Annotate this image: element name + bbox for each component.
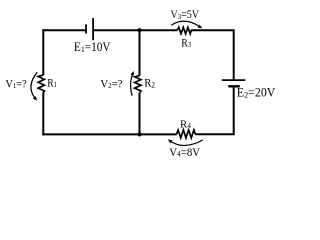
wire: bottom side, R4 to node B — [140, 133, 177, 135]
label V2=? — [100, 78, 122, 90]
label V3=5V — [171, 10, 200, 22]
label R4 — [180, 118, 191, 130]
label V1=? — [6, 78, 27, 91]
wire: bottom side, node B to bottom-left corner — [42, 133, 139, 135]
wire: top side, node A to R3 — [140, 29, 178, 31]
svg-text:E1=10V: E1=10V — [74, 41, 111, 54]
curved arrow for V1 (points down) — [31, 72, 37, 101]
battery E1 negative plate (short bar) — [85, 24, 87, 33]
node B junction dot (bottom of R2 branch) — [137, 132, 141, 136]
resistor R2 — [135, 75, 141, 92]
svg-text:V3=5V: V3=5V — [171, 10, 200, 22]
resistor R4 — [177, 130, 196, 138]
svg-text:R2: R2 — [144, 77, 155, 90]
svg-text:V4=8V: V4=8V — [169, 146, 201, 158]
label R3 — [181, 37, 191, 50]
label R2 — [144, 77, 155, 90]
battery E1 positive plate (long bar) — [92, 18, 94, 40]
node A junction dot (top of R2 branch) — [137, 28, 141, 32]
svg-text:R3: R3 — [181, 37, 191, 50]
wire: left side below R1 — [42, 92, 44, 135]
curved arrow for V3 (points right) — [171, 21, 202, 28]
label R1 — [47, 76, 57, 89]
svg-text:R1: R1 — [47, 76, 57, 89]
resistor R1 — [38, 75, 44, 93]
svg-text:V1=?: V1=? — [6, 78, 27, 91]
wire: top side, E1 to node A — [94, 29, 140, 31]
label E2=20V — [237, 85, 276, 99]
curved arrow for V4 (points left) — [168, 139, 203, 145]
battery E2 positive plate (long bar) — [222, 79, 246, 81]
label V4=8V — [169, 146, 201, 158]
wire: E2 to bottom-right corner to R4 — [195, 87, 233, 134]
svg-text:R4: R4 — [180, 118, 191, 130]
resistor R3 — [177, 27, 191, 34]
wire: R2 branch upper — [139, 30, 141, 75]
svg-text:V2=?: V2=? — [100, 78, 122, 90]
curved arrow for V2 (points up) — [130, 71, 133, 96]
label E1=10V — [74, 41, 111, 54]
svg-text:E2=20V: E2=20V — [237, 85, 276, 99]
wire: left side above R1 — [42, 29, 44, 75]
battery E2 negative plate (short bar) — [228, 85, 240, 87]
wire: top side, left corner to E1 — [42, 29, 85, 31]
wire: top side, R3 to top-right corner, down to E2 — [191, 30, 233, 79]
wire: R2 branch lower — [139, 92, 141, 134]
